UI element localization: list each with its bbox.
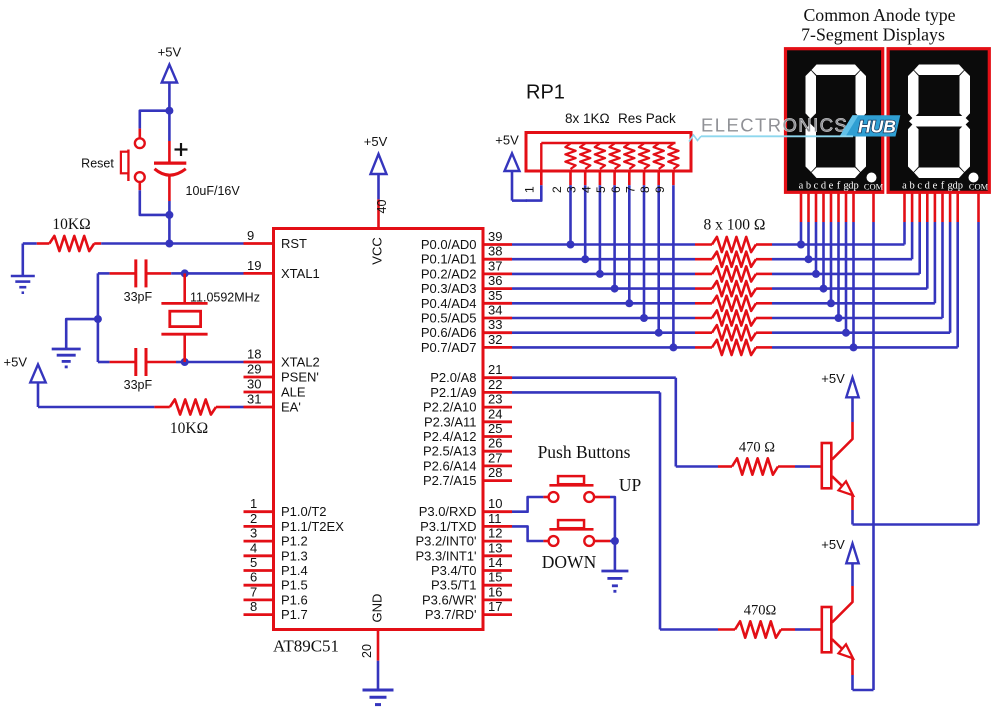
svg-text:37: 37	[488, 258, 502, 273]
wire segment row 4 to displays	[772, 193, 927, 293]
svg-text:3: 3	[565, 186, 579, 193]
svg-text:+5V: +5V	[821, 371, 845, 386]
svg-text:P1.1/T2EX: P1.1/T2EX	[281, 519, 344, 534]
pin 30 ALE	[244, 377, 306, 400]
svg-text:35: 35	[488, 288, 502, 303]
pin 14 P3.4/T0	[431, 555, 512, 578]
svg-text:COM: COM	[969, 182, 989, 192]
pin 3 RP1 to P0.1 wire	[565, 171, 590, 263]
svg-text:P2.6/A14: P2.6/A14	[423, 458, 477, 473]
pin 24 P2.3/A11	[424, 406, 512, 429]
node buttons common junction	[611, 537, 619, 545]
push button Reset	[81, 138, 145, 182]
resistor R2 10K ohm EA pullup	[38, 399, 244, 437]
pin 8 RP1 to P0.6 wire	[638, 171, 663, 337]
svg-text:15: 15	[488, 570, 502, 585]
svg-text:7-Segment Displays: 7-Segment Displays	[801, 25, 945, 45]
ground IC GND pin 20	[360, 594, 394, 705]
svg-text:P3.1/TXD: P3.1/TXD	[420, 519, 476, 534]
pin 7 P1.6	[244, 584, 308, 607]
svg-text:470Ω: 470Ω	[744, 603, 777, 619]
svg-text:P0.3/AD3: P0.3/AD3	[421, 281, 477, 296]
svg-text:6: 6	[250, 570, 257, 585]
wire crystal caps common	[97, 273, 100, 362]
pin 21 P2.0/A8	[430, 362, 512, 385]
transistor Q2	[822, 607, 832, 652]
svg-text:31: 31	[247, 392, 261, 407]
node caps common junction	[94, 315, 102, 323]
pin 19 XTAL1	[244, 258, 320, 281]
wire segment row 3 to displays	[772, 193, 920, 278]
svg-text:8: 8	[250, 599, 257, 614]
svg-text:Reset: Reset	[81, 157, 114, 171]
resistor 100 ohm row 2 (segment b)	[512, 252, 772, 267]
svg-text:33pF: 33pF	[124, 378, 153, 392]
power +5V EA supply	[4, 354, 46, 407]
pin 34 P0.5/AD5	[421, 303, 512, 326]
svg-text:P1.0/T2: P1.0/T2	[281, 504, 327, 519]
capacitor C3 10uF/16V electrolytic	[154, 111, 240, 215]
svg-text:GND: GND	[370, 594, 385, 623]
svg-text:UP: UP	[619, 475, 642, 495]
svg-text:P0.6/AD6: P0.6/AD6	[421, 325, 477, 340]
svg-text:6: 6	[609, 186, 623, 193]
svg-text:a: a	[902, 181, 907, 192]
push button UP	[549, 475, 642, 502]
power +5V reset supply	[158, 45, 182, 111]
pin 39 P0.0/AD0	[421, 229, 512, 252]
svg-text:2: 2	[250, 511, 257, 526]
svg-text:dp: dp	[848, 181, 859, 192]
text title Common Anode	[801, 5, 956, 45]
resistor 100 ohm row 3 (segment c)	[512, 266, 772, 281]
wire Q1 emitter to DIS2 COM	[853, 193, 979, 525]
svg-text:9: 9	[653, 186, 667, 193]
pin 1 RP1	[523, 171, 542, 201]
svg-text:EA': EA'	[281, 400, 301, 415]
svg-text:P0.0/AD0: P0.0/AD0	[421, 237, 477, 252]
svg-text:P2.3/A11: P2.3/A11	[424, 414, 477, 429]
7-segment display DIS2 digit 8	[888, 49, 989, 193]
svg-text:P0.4/AD4: P0.4/AD4	[421, 296, 477, 311]
resistor 100 ohm row 8 (segment dp)	[512, 340, 772, 355]
svg-text:24: 24	[488, 406, 502, 421]
pin 5 RP1 to P0.3 wire	[594, 171, 619, 293]
svg-text:4: 4	[250, 540, 257, 555]
svg-text:27: 27	[488, 450, 502, 465]
resistor array 8 x 100 ohm label	[704, 217, 766, 234]
svg-text:P2.2/A10: P2.2/A10	[423, 400, 477, 415]
svg-text:2: 2	[550, 186, 564, 193]
svg-text:e: e	[829, 181, 834, 192]
wire Q2 collector to +5V	[832, 562, 853, 623]
svg-text:20: 20	[360, 644, 374, 658]
wire reset button bottom	[140, 182, 170, 215]
resistor 100 ohm row 7 (segment g)	[512, 325, 772, 340]
wire segment row 5 to displays	[772, 193, 935, 308]
resistor 100 ohm row 5 (segment e)	[512, 296, 772, 311]
svg-text:c: c	[917, 181, 922, 192]
svg-text:Res Pack: Res Pack	[618, 111, 676, 126]
svg-text:DOWN: DOWN	[542, 552, 597, 572]
svg-text:P2.7/A15: P2.7/A15	[423, 473, 477, 488]
transistor Q1	[822, 443, 832, 488]
resistor pack RP1 8x 1K	[526, 82, 691, 172]
svg-text:21: 21	[488, 362, 502, 377]
pin 27 P2.6/A14	[423, 450, 512, 473]
svg-text:12: 12	[488, 526, 502, 541]
push button DOWN	[542, 520, 597, 572]
svg-text:P1.5: P1.5	[281, 578, 308, 593]
svg-text:33: 33	[488, 317, 502, 332]
wire segment row 1 to displays	[772, 193, 905, 249]
pin 25 P2.4/A12	[423, 421, 512, 444]
svg-text:dp: dp	[952, 181, 963, 192]
svg-text:PSEN': PSEN'	[281, 370, 319, 385]
svg-text:b: b	[806, 181, 811, 192]
svg-text:P3.7/RD': P3.7/RD'	[425, 607, 477, 622]
pin 4 P1.3	[244, 540, 308, 563]
svg-text:P1.6: P1.6	[281, 592, 308, 607]
svg-text:34: 34	[488, 303, 502, 318]
ground reset ground	[11, 244, 35, 293]
pin 29 PSEN'	[244, 362, 319, 385]
ground push buttons ground	[601, 541, 628, 591]
svg-text:22: 22	[488, 377, 502, 392]
pin 3 P1.2	[244, 526, 308, 549]
svg-text:16: 16	[488, 584, 502, 599]
watermark Electronics Hub logo	[689, 115, 900, 142]
crystal X1 11.0592MHz	[161, 273, 260, 362]
svg-text:HUB: HUB	[858, 117, 896, 137]
svg-text:11: 11	[488, 511, 502, 526]
svg-text:7: 7	[624, 186, 638, 193]
pin 10 P3.0/RXD	[419, 496, 512, 519]
capacitor C2 33pF	[98, 348, 185, 392]
wire segment row 7 to displays	[772, 193, 950, 337]
pin 17 P3.7/RD'	[425, 599, 512, 622]
svg-text:Push Buttons: Push Buttons	[538, 442, 631, 462]
resistor R4 470 ohm Q2 base	[512, 392, 822, 637]
resistor 100 ohm row 6 (segment f)	[512, 310, 772, 325]
power +5V RP1 pin 1 supply	[495, 132, 527, 200]
svg-text:30: 30	[247, 377, 261, 392]
svg-text:P3.5/T1: P3.5/T1	[431, 578, 477, 593]
svg-text:40: 40	[375, 200, 389, 214]
wire UP button to common	[594, 497, 615, 541]
svg-text:P3.0/RXD: P3.0/RXD	[419, 504, 477, 519]
pin 32 P0.7/AD7	[421, 332, 512, 355]
resistor 100 ohm row 4 (segment d)	[512, 281, 772, 296]
wire Q2 emitter to DIS1 COM	[853, 193, 874, 690]
svg-text:P2.0/A8: P2.0/A8	[430, 370, 476, 385]
pin 37 P0.2/AD2	[421, 258, 512, 281]
pin 28 P2.7/A15	[423, 465, 512, 488]
svg-text:18: 18	[247, 347, 261, 362]
svg-text:33pF: 33pF	[124, 290, 153, 304]
svg-text:f: f	[837, 181, 841, 192]
svg-text:Common Anode type: Common Anode type	[803, 5, 955, 25]
wire RST net to pin 9	[169, 242, 243, 245]
svg-text:+5V: +5V	[158, 45, 182, 60]
wire DOWN button to common	[594, 540, 615, 543]
svg-text:XTAL2: XTAL2	[281, 355, 320, 370]
svg-text:+5V: +5V	[821, 537, 845, 552]
pin 16 P3.6/WR'	[422, 584, 512, 607]
pin 6 RP1 to P0.4 wire	[609, 171, 634, 307]
wire Q2 emitter	[832, 639, 853, 690]
svg-text:39: 39	[488, 229, 502, 244]
svg-text:VCC: VCC	[370, 237, 385, 264]
svg-text:32: 32	[488, 332, 502, 347]
svg-text:c: c	[814, 181, 819, 192]
svg-text:470 Ω: 470 Ω	[739, 440, 775, 456]
svg-text:f: f	[941, 181, 945, 192]
svg-text:8: 8	[638, 186, 652, 193]
svg-text:+5V: +5V	[495, 132, 519, 147]
text Push Buttons	[538, 442, 631, 462]
svg-text:+5V: +5V	[4, 354, 28, 369]
svg-text:25: 25	[488, 421, 502, 436]
svg-text:P3.6/WR': P3.6/WR'	[422, 592, 477, 607]
svg-text:1: 1	[523, 186, 537, 193]
node RST junction	[165, 240, 173, 248]
pin 31 EA'	[244, 392, 301, 415]
svg-text:10uF/16V: 10uF/16V	[186, 184, 241, 198]
pin 2 RP1 to P0.0 wire	[550, 171, 575, 249]
svg-text:1: 1	[250, 496, 257, 511]
pin 13 P3.3/INT1'	[415, 540, 512, 563]
svg-text:P3.2/INT0': P3.2/INT0'	[415, 534, 476, 549]
svg-text:14: 14	[488, 555, 502, 570]
pin 15 P3.5/T1	[431, 570, 512, 593]
power +5V Q1 supply	[821, 371, 858, 397]
svg-text:ALE: ALE	[281, 385, 306, 400]
wire segment row 2 to displays	[772, 193, 912, 264]
node reset top junction	[165, 107, 173, 115]
svg-text:3: 3	[250, 526, 257, 541]
pin 4 RP1 to P0.2 wire	[579, 171, 604, 278]
svg-text:10KΩ: 10KΩ	[52, 216, 90, 233]
wire segment row 6 to displays	[772, 193, 943, 323]
svg-text:8x 1KΩ: 8x 1KΩ	[565, 111, 610, 126]
svg-text:11.0592MHz: 11.0592MHz	[190, 291, 260, 305]
svg-text:P0.1/AD1: P0.1/AD1	[421, 252, 477, 267]
svg-text:d: d	[821, 181, 827, 192]
resistor R3 470 ohm Q1 base	[512, 378, 822, 475]
svg-text:5: 5	[250, 555, 257, 570]
svg-text:8 x 100 Ω: 8 x 100 Ω	[704, 217, 766, 234]
pin 11 P3.1/TXD	[420, 511, 512, 534]
resistor 100 ohm row 1 (segment a)	[512, 237, 772, 252]
svg-text:d: d	[925, 181, 931, 192]
pin 7 RP1 to P0.5 wire	[624, 171, 649, 322]
svg-text:RP1: RP1	[526, 82, 565, 104]
svg-text:7: 7	[250, 584, 257, 599]
svg-text:10: 10	[488, 496, 502, 511]
svg-text:4: 4	[579, 186, 593, 193]
svg-text:P3.3/INT1': P3.3/INT1'	[415, 548, 476, 563]
svg-text:COM: COM	[864, 182, 884, 192]
svg-text:P2.1/A9: P2.1/A9	[430, 385, 476, 400]
pin 22 P2.1/A9	[430, 377, 512, 400]
svg-text:P3.4/T0: P3.4/T0	[431, 563, 477, 578]
svg-text:+5V: +5V	[364, 134, 388, 149]
pin 12 P3.2/INT0'	[415, 526, 512, 549]
wire pin11 to DOWN button	[512, 526, 549, 541]
node reset bottom junction	[165, 211, 173, 244]
svg-text:36: 36	[488, 273, 502, 288]
pin 9 RST	[244, 228, 308, 251]
svg-text:38: 38	[488, 244, 502, 259]
pin 35 P0.4/AD4	[421, 288, 512, 311]
7-segment display DIS1 digit 0	[786, 49, 884, 193]
svg-text:13: 13	[488, 540, 502, 555]
resistor R1 10K ohm RST pulldown	[23, 216, 170, 251]
node XTAL2 junction	[181, 358, 244, 366]
pin 8 P1.7	[244, 599, 308, 622]
svg-text:P1.4: P1.4	[281, 563, 308, 578]
svg-text:P2.5/A13: P2.5/A13	[423, 444, 477, 459]
pin 18 XTAL2	[244, 347, 320, 370]
svg-text:XTAL1: XTAL1	[281, 266, 320, 281]
svg-text:P0.5/AD5: P0.5/AD5	[421, 311, 477, 326]
IC U1 AT89C51 body	[273, 229, 483, 656]
svg-text:ELECTRONICS: ELECTRONICS	[701, 115, 848, 136]
wire reset top node to button	[140, 111, 170, 139]
svg-text:5: 5	[594, 186, 608, 193]
pin 33 P0.6/AD6	[421, 317, 512, 340]
power +5V Q2 supply	[821, 537, 858, 563]
svg-text:RST: RST	[281, 236, 307, 251]
ground crystal ground	[52, 319, 98, 367]
svg-text:23: 23	[488, 392, 502, 407]
svg-text:P2.4/A12: P2.4/A12	[423, 429, 477, 444]
pin 5 P1.4	[244, 555, 308, 578]
svg-text:b: b	[909, 181, 914, 192]
svg-text:17: 17	[488, 599, 502, 614]
svg-text:P1.3: P1.3	[281, 548, 308, 563]
svg-text:P0.7/AD7: P0.7/AD7	[421, 340, 477, 355]
svg-text:29: 29	[247, 362, 261, 377]
pin 9 RP1 to P0.7 wire	[653, 171, 678, 351]
svg-text:P0.2/AD2: P0.2/AD2	[421, 266, 477, 281]
power +5V VCC supply pin 40	[364, 134, 389, 265]
svg-text:28: 28	[488, 465, 502, 480]
pin 1 P1.0/T2	[244, 496, 327, 519]
wire Q1 emitter	[832, 476, 853, 524]
pin 2 P1.1/T2EX	[244, 511, 345, 534]
capacitor C1 33pF	[98, 259, 185, 304]
wire pin10 to UP button	[512, 497, 549, 512]
svg-text:26: 26	[488, 436, 502, 451]
svg-text:9: 9	[247, 228, 254, 243]
svg-text:10KΩ: 10KΩ	[170, 420, 208, 437]
svg-text:e: e	[933, 181, 938, 192]
wire segment row 8 to displays	[772, 193, 958, 352]
pin 36 P0.3/AD3	[421, 273, 512, 296]
pin 38 P0.1/AD1	[421, 244, 512, 267]
wire Q1 collector to +5V	[832, 396, 853, 460]
pin 26 P2.5/A13	[423, 436, 512, 459]
svg-text:19: 19	[247, 258, 261, 273]
pin 23 P2.2/A10	[423, 392, 512, 415]
pin 6 P1.5	[244, 570, 308, 593]
node XTAL1 junction	[181, 269, 244, 277]
svg-text:P1.2: P1.2	[281, 534, 308, 549]
svg-text:AT89C51: AT89C51	[273, 637, 339, 656]
svg-text:a: a	[799, 181, 804, 192]
svg-text:P1.7: P1.7	[281, 607, 308, 622]
